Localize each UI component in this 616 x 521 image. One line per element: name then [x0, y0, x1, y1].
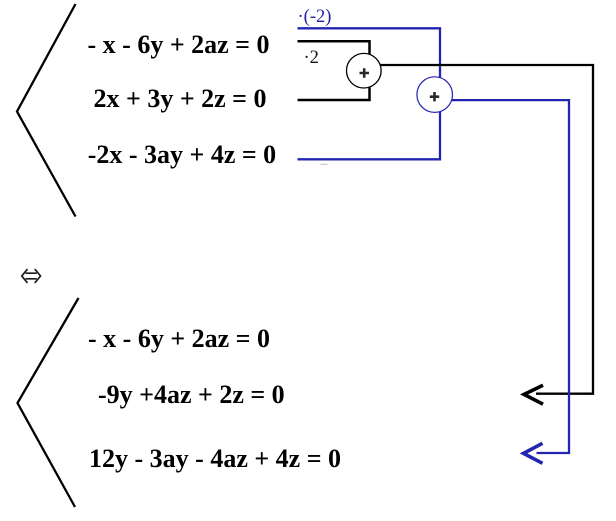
equation E4 bottom: - x - 6y + 2az = 0: [88, 326, 270, 352]
brace left bottom system: [18, 298, 79, 507]
equation E6 bottom: 12y - 3ay - 4az + 4z = 0: [89, 446, 341, 472]
equation E2 top: 2x + 3y + 2z = 0: [94, 86, 267, 112]
label multiply by 2: [304, 49, 319, 68]
arrowhead black pointing at eq5: [524, 385, 543, 404]
equation E5 bottom: -9y +4az + 2z = 0: [98, 382, 285, 408]
wire black output of U1 to arrow at eq5: [378, 65, 593, 394]
label multiply by (-2): [298, 8, 332, 27]
wire blue loop from eq1 (x-2) down to eq3: [298, 28, 441, 159]
equivalence symbol between systems: [22, 269, 41, 283]
adder U2 circle: [417, 77, 453, 113]
wire blue output of U2 to arrow at eq6: [450, 100, 569, 453]
adder U1 plus sign: [360, 68, 370, 77]
equation E3 top: -2x - 3ay + 4z = 0: [88, 142, 277, 168]
artifact faint dash: [321, 164, 328, 165]
adder U1 circle: [347, 53, 382, 88]
arrowhead blue pointing at eq6: [524, 443, 543, 463]
brace left top system: [17, 4, 76, 217]
adder U2 plus sign: [430, 92, 439, 101]
equation E1 top: - x - 6y + 2az = 0: [88, 32, 270, 58]
wire black from eq1 and eq2 into adder U1: [298, 41, 370, 100]
